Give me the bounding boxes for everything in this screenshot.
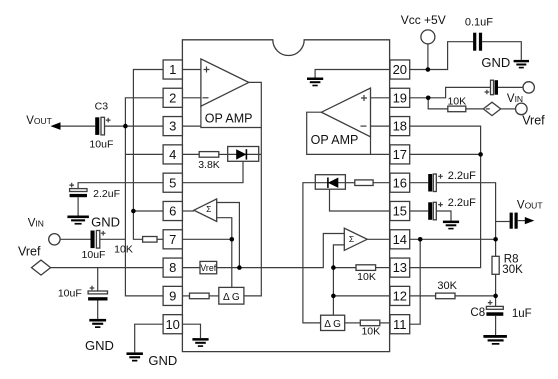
svg-text:18: 18 — [393, 119, 407, 134]
svg-text:5: 5 — [169, 175, 176, 190]
svg-text:8: 8 — [169, 260, 176, 275]
svg-text:10K: 10K — [357, 271, 376, 283]
svg-text:Vcc +5V: Vcc +5V — [401, 13, 446, 27]
svg-text:VOUT: VOUT — [26, 115, 52, 127]
svg-text:1uF: 1uF — [512, 308, 532, 320]
svg-text:16: 16 — [393, 175, 407, 190]
svg-text:9: 9 — [169, 289, 176, 304]
svg-text:6: 6 — [169, 204, 176, 219]
svg-text:19: 19 — [393, 90, 407, 105]
svg-text:Σ: Σ — [206, 204, 211, 214]
svg-text:Δ G: Δ G — [223, 292, 240, 303]
svg-text:Vref: Vref — [200, 263, 216, 273]
svg-text:17: 17 — [393, 147, 407, 162]
svg-text:2.2uF: 2.2uF — [448, 170, 476, 182]
svg-text:10K: 10K — [447, 96, 466, 108]
svg-text:OP AMP: OP AMP — [205, 111, 253, 125]
svg-text:10uF: 10uF — [82, 249, 106, 261]
svg-text:3.8K: 3.8K — [198, 159, 220, 171]
svg-text:14: 14 — [393, 232, 407, 247]
svg-text:12: 12 — [393, 289, 407, 304]
svg-text:GND: GND — [148, 353, 177, 368]
svg-text:Σ: Σ — [349, 234, 354, 244]
svg-text:15: 15 — [393, 204, 407, 219]
svg-text:10uF: 10uF — [89, 139, 113, 151]
svg-text:4: 4 — [169, 147, 176, 162]
svg-text:Δ G: Δ G — [324, 319, 341, 330]
svg-text:10K: 10K — [361, 325, 380, 337]
svg-text:C8: C8 — [470, 307, 485, 319]
svg-text:2.2uF: 2.2uF — [448, 197, 476, 209]
svg-text:7: 7 — [169, 232, 176, 247]
svg-text:3: 3 — [169, 119, 176, 134]
svg-text:30K: 30K — [502, 264, 523, 276]
svg-text:VIN: VIN — [28, 217, 44, 229]
svg-text:VOUT: VOUT — [517, 199, 543, 211]
svg-text:1: 1 — [169, 62, 176, 77]
svg-text:10K: 10K — [114, 244, 133, 256]
svg-text:10uF: 10uF — [58, 287, 82, 299]
svg-text:GND: GND — [481, 55, 510, 70]
svg-text:10: 10 — [165, 317, 179, 332]
svg-text:13: 13 — [393, 260, 407, 275]
svg-text:OP AMP: OP AMP — [311, 133, 359, 147]
svg-text:30K: 30K — [437, 280, 457, 292]
svg-text:Vref: Vref — [522, 114, 545, 128]
svg-text:11: 11 — [393, 317, 407, 332]
svg-text:C3: C3 — [95, 100, 109, 112]
svg-text:2: 2 — [169, 90, 176, 105]
svg-text:VIN: VIN — [507, 93, 523, 105]
svg-text:2.2uF: 2.2uF — [93, 188, 120, 200]
svg-text:20: 20 — [393, 62, 407, 77]
svg-text:GND: GND — [91, 215, 120, 230]
svg-text:0.1uF: 0.1uF — [465, 17, 493, 29]
svg-text:GND: GND — [85, 338, 114, 353]
svg-text:Vref: Vref — [18, 245, 41, 259]
